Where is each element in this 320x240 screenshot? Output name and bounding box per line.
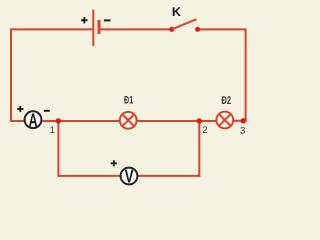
- wire: bottom right up to node 2: [198, 121, 200, 177]
- switch left contact: [169, 27, 174, 32]
- svg-text:A: A: [29, 109, 38, 131]
- wire: lamp D1 to lamp D2 (through node 2): [137, 120, 216, 122]
- ammeter A1: [25, 111, 42, 128]
- wire: ammeter to lamp D1 (through node 1): [41, 120, 120, 122]
- wire: top-left from corner to battery + plate: [11, 28, 92, 30]
- svg-text:3: 3: [240, 126, 245, 137]
- wire: left stub into ammeter: [10, 120, 25, 122]
- battery short negative plate: [98, 20, 101, 34]
- wire: node 1 down to bottom loop: [57, 121, 59, 176]
- wire: voltmeter to bottom right corner: [137, 175, 200, 177]
- voltmeter V: [121, 168, 138, 185]
- svg-text:Đ2: Đ2: [221, 94, 231, 107]
- switch lever (open): [172, 19, 197, 29]
- wire: left vertical side: [10, 28, 12, 121]
- node 3: [241, 118, 246, 123]
- wire: battery to switch left contact: [100, 28, 172, 30]
- voltmeter plus sign: [111, 160, 117, 166]
- wire: bottom left segment to voltmeter: [57, 175, 121, 177]
- ammeter plus sign: [17, 106, 23, 112]
- node 1: [56, 118, 61, 123]
- svg-text:1: 1: [50, 125, 55, 136]
- battery plus sign: [81, 17, 87, 23]
- wire: right vertical side: [245, 28, 247, 120]
- svg-text:K: K: [172, 5, 181, 19]
- lamp D1: [120, 112, 137, 129]
- battery long positive plate: [92, 10, 94, 47]
- wire: lamp D2 to node 3 / right side: [234, 120, 247, 122]
- svg-text:2: 2: [202, 125, 207, 136]
- switch right contact: [195, 27, 200, 32]
- wire: switch right contact to top-right corner: [198, 28, 246, 30]
- svg-text:Đ1: Đ1: [124, 94, 133, 106]
- ammeter minus sign: [44, 110, 50, 112]
- lamp D2: [216, 112, 233, 129]
- node 2: [197, 118, 202, 123]
- svg-text:V: V: [125, 166, 134, 188]
- battery minus sign: [104, 19, 111, 21]
